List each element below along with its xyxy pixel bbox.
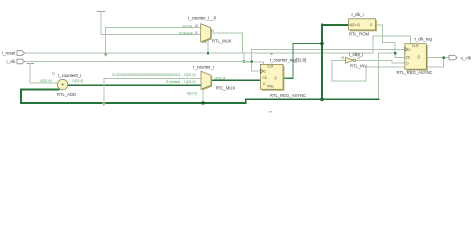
wire: const stub into top mux I1: [98, 11, 105, 13]
svg-text:I0: I0: [342, 56, 345, 60]
svg-text:nst: nst: [269, 110, 273, 114]
svg-text:rst: rst: [270, 52, 273, 56]
svg-text:CLR: CLR: [412, 44, 419, 48]
svg-text:o_clk: o_clk: [461, 55, 472, 60]
svg-text:r_counter_i: r_counter_i: [193, 65, 214, 70]
wire: r_clk_reg Q to o_clk port: [426, 57, 449, 59]
mux r_counter_i__0 (RTL_MUX top): [179, 16, 232, 45]
mux r_counter_i (RTL_MUX bottom): [112, 65, 235, 96]
svg-text:I0[31:0]: I0[31:0]: [184, 73, 195, 77]
node: junction CLR drop on i_clk row: [243, 60, 245, 62]
svg-text:RTL_INV: RTL_INV: [350, 64, 367, 69]
wire: i_clk down to r_counter_reg C: [252, 62, 261, 72]
svg-text:i_clk: i_clk: [6, 59, 16, 64]
input port i_clk: [6, 59, 24, 64]
wire: adder output to bottom mux I1 (thick): [68, 84, 201, 86]
svg-text:RTL_REG_ASYNC: RTL_REG_ASYNC: [397, 70, 433, 75]
svg-text:r_counter_reg[31:0]: r_counter_reg[31:0]: [270, 58, 307, 63]
svg-text:S=32'b000000000000000000000000: S=32'b00000000000000000000000000000111: [112, 73, 181, 77]
svg-text:r_clk_reg: r_clk_reg: [415, 37, 433, 42]
wire: i_reset rise to r_clk_reg CLR: [373, 36, 411, 53]
wire: i_reset control line: [25, 52, 374, 54]
wire: o_clk feedback down and left to INV: [332, 58, 444, 81]
wire: INV output to r_clk_reg D: [356, 60, 405, 63]
svg-text:I1: I1: [52, 72, 55, 76]
wire: ROM output elbow to CE: [376, 25, 405, 57]
inverter r_clk0_i (RTL_INV): [342, 52, 368, 69]
svg-text:r_clk_i: r_clk_i: [351, 12, 363, 17]
svg-text:I1: I1: [195, 31, 198, 35]
register r_clk_reg (RTL_REG_ASYNC): [397, 37, 433, 75]
svg-text:r_counter_i__0: r_counter_i__0: [188, 16, 217, 21]
node: junction select on control line: [207, 52, 209, 54]
svg-text:S: S: [204, 41, 206, 45]
node: junction bottom mux select: [202, 102, 205, 105]
svg-text:CLR: CLR: [267, 65, 274, 69]
svg-text:RTL_ADD: RTL_ADD: [57, 92, 76, 97]
wire: const stub into adder: [27, 63, 33, 65]
svg-text:A[31:0]: A[31:0]: [350, 23, 360, 27]
svg-text:RTL_REG_ASYNC: RTL_REG_ASYNC: [270, 93, 306, 98]
svg-text:S=1'b1: S=1'b1: [182, 24, 192, 28]
svg-text:O[31:0]: O[31:0]: [215, 76, 226, 80]
wire: counter bus Q up and right (thick): [283, 44, 322, 79]
wire: bottom mux I0 wire from dangling riser: [104, 78, 201, 80]
output port o_clk: [449, 55, 472, 60]
wire: bottom mux output to r_counter_reg D (thick): [213, 79, 260, 81]
wire: left U riser to adder (thick): [21, 89, 59, 103]
node: junction o_clk feedback: [443, 57, 445, 59]
adder r_counter0_i (RTL_ADD): [40, 72, 83, 97]
svg-text:S=default: S=default: [179, 32, 193, 36]
wire: bottom bus jog and upper section (thick): [246, 99, 379, 103]
svg-text:S[31:0]: S[31:0]: [187, 92, 198, 96]
svg-text:RTL_ROM: RTL_ROM: [349, 31, 369, 36]
wire: sel drop to bottom bus: [378, 53, 380, 99]
wire: dangling vertical (top): [105, 28, 107, 54]
wire: top mux select riser: [207, 40, 209, 54]
node: junction counter bus on bottom bus: [321, 98, 324, 101]
svg-text:PRE: PRE: [267, 84, 274, 88]
node: junction i_clk split: [251, 60, 253, 62]
wire: bottom bus lower section (thick): [21, 102, 246, 104]
input port i_reset: [2, 51, 25, 56]
wire: i_clk net horizontal: [25, 61, 252, 63]
wire: i_reset branch down to r_counter_reg CLR: [244, 53, 264, 65]
arrow: dangling net arrow bottom: [102, 102, 107, 105]
wire: top mux I0 wire from dangling riser: [106, 27, 201, 29]
wire: i_clk up to r_clk_reg C: [252, 49, 405, 61]
wire: dangling vertical (bottom): [103, 79, 105, 103]
wire: counter bus into ROM A (thick): [322, 24, 352, 26]
svg-text:O[31:0]: O[31:0]: [72, 79, 83, 83]
svg-text:CE: CE: [406, 56, 410, 60]
svg-text:r_counter0_i: r_counter0_i: [58, 73, 81, 78]
svg-text:CE: CE: [263, 76, 267, 80]
svg-text:RTL_MUX: RTL_MUX: [216, 86, 236, 91]
svg-text:i_reset: i_reset: [2, 51, 16, 56]
wire: bottom mux select riser: [202, 89, 204, 103]
wire: counter bus vertical (thick): [321, 24, 323, 99]
svg-text:I1[31:0]: I1[31:0]: [184, 80, 195, 84]
svg-text:RTL_MUX: RTL_MUX: [212, 39, 232, 44]
svg-text:I0: I0: [195, 24, 198, 28]
node: junction sel on ROM elbow: [394, 52, 396, 54]
svg-text:S=default: S=default: [166, 80, 180, 84]
svg-text:r_clk0_i: r_clk0_i: [349, 52, 363, 57]
arrow: dangling net arrow top: [103, 53, 108, 56]
wire: sel segment to drop riser: [379, 52, 396, 54]
wire: top mux output down to control row: [211, 33, 243, 53]
svg-text:+: +: [61, 83, 65, 89]
register r_counter_reg[31:0] (RTL_REG_ASYNC): [260, 52, 306, 114]
svg-text:I0[31:0]: I0[31:0]: [40, 79, 51, 83]
node: junction counter bus T: [321, 42, 324, 45]
rom r_clk_i (RTL_ROM): [349, 12, 377, 36]
